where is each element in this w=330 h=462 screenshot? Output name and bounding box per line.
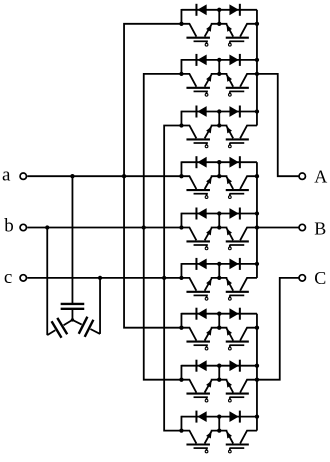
- diode D4a: [197, 157, 206, 168]
- diode D5a: [197, 208, 206, 219]
- transistor Q8a gate plate: [194, 396, 208, 398]
- diode D7a: [197, 308, 206, 319]
- transistor Q7b emitter arrow: [226, 329, 232, 336]
- node line c to filter: [98, 276, 102, 280]
- transistor Q2b bar: [226, 87, 249, 89]
- transistor Q5b collector lead: [240, 228, 257, 241]
- diode D3a: [197, 106, 206, 117]
- terminal C: [299, 275, 305, 281]
- transistor Q3b gate lead: [229, 143, 231, 145]
- node emitter centre of cell S7: [217, 326, 221, 330]
- transistor Q9a gate lead: [206, 448, 208, 450]
- transistor Q9a gate terminal: [205, 450, 208, 453]
- node emitter centre of cell S8: [217, 378, 221, 382]
- transistor Q6a gate plate: [194, 294, 208, 296]
- wire top rail of cell S7: [181, 313, 257, 315]
- diode D9a cathode bar: [195, 411, 197, 423]
- transistor Q2b gate plate: [229, 90, 244, 92]
- terminal a: [20, 173, 26, 179]
- transistor Q9b bar: [226, 443, 249, 445]
- transistor Q8b collector lead: [240, 380, 257, 393]
- svg-text:A: A: [314, 166, 327, 186]
- diode D7b cathode bar: [239, 308, 241, 320]
- transistor Q3b collector lead: [240, 126, 257, 139]
- wire star point to capacitor C3: [72, 320, 81, 325]
- node right terminal of cell S8: [255, 378, 259, 382]
- transistor Q2b gate terminal: [228, 93, 231, 96]
- transistor Q2a emitter arrow: [206, 75, 212, 82]
- transistor Q3b emitter arrow: [226, 126, 232, 133]
- transistor Q6b emitter lead: [219, 278, 233, 291]
- node top-centre of cell S3: [217, 109, 221, 113]
- wire left rail of cell S7: [180, 313, 182, 328]
- diode D3b cathode bar: [239, 106, 241, 118]
- wire left rail of cell S6: [180, 263, 182, 278]
- node bus a at line a: [122, 174, 126, 178]
- wire left rail of cell S8: [180, 365, 182, 380]
- wire centre link of cell S2: [218, 60, 220, 74]
- wire output bus phase A (cells S1-S3): [256, 10, 258, 126]
- node left terminal of cell S8: [179, 378, 183, 382]
- wire left rail of cell S3: [180, 111, 182, 126]
- node left terminal of cell S4: [179, 174, 183, 178]
- diode D3a cathode bar: [195, 106, 197, 118]
- diode D1b cathode bar: [239, 4, 241, 16]
- wire top rail of cell S4: [181, 161, 257, 163]
- transistor Q8a collector lead: [181, 380, 196, 393]
- wire top rail of cell S2: [181, 59, 257, 61]
- node top-centre of cell S9: [217, 414, 221, 418]
- transistor Q8a bar: [186, 393, 210, 395]
- node left terminal of cell S9: [179, 428, 183, 432]
- transistor Q1b collector lead: [240, 24, 257, 37]
- transistor Q8b gate plate: [229, 396, 244, 398]
- transistor Q5b gate lead: [229, 245, 231, 247]
- transistor Q6a bar: [186, 291, 210, 293]
- wire centre link of cell S3: [218, 112, 220, 126]
- transistor Q8b bar: [226, 393, 249, 395]
- wire capacitor C3 outer lead: [90, 329, 100, 334]
- wire centre link of cell S9: [218, 417, 220, 431]
- transistor Q9a collector lead: [181, 431, 196, 444]
- transistor Q6b gate lead: [229, 295, 231, 297]
- transistor Q1b emitter arrow: [226, 25, 232, 32]
- diode D9b: [229, 411, 238, 422]
- transistor Q7b gate lead: [229, 345, 231, 347]
- diode D6b: [229, 259, 238, 270]
- wire input bus c to cells S3 and S9: [164, 126, 181, 431]
- wire line c: [27, 277, 181, 279]
- transistor Q6b collector lead: [240, 278, 257, 291]
- transistor Q6b emitter arrow: [226, 279, 232, 286]
- capacitor C1 top plate: [61, 303, 85, 305]
- node right terminal of cell S7: [255, 326, 259, 330]
- node left terminal of cell S5: [179, 225, 183, 229]
- diode D1a: [197, 4, 206, 15]
- svg-text:C: C: [314, 268, 326, 288]
- wire output bus phase B (cells S4-S6): [256, 162, 258, 278]
- node bus B at S6 top rail: [255, 262, 259, 266]
- diode D2b cathode bar: [239, 54, 241, 66]
- transistor Q1a bar: [186, 37, 210, 39]
- transistor Q9a bar: [186, 443, 210, 445]
- transistor Q2a collector lead: [181, 74, 196, 87]
- transistor Q5a gate plate: [194, 244, 208, 246]
- transistor Q9a emitter lead: [205, 431, 220, 444]
- node bus A at S2 top rail: [255, 58, 259, 62]
- wire top rail of cell S1: [181, 9, 257, 11]
- transistor Q6a emitter arrow: [206, 279, 212, 286]
- transistor Q7a emitter lead: [205, 328, 220, 341]
- transistor Q6a collector lead: [181, 278, 196, 291]
- transistor Q9b emitter arrow: [226, 432, 232, 439]
- transistor Q3b bar: [226, 138, 249, 140]
- transistor Q7b gate terminal: [228, 347, 231, 350]
- wire filter branch from a: [71, 176, 73, 303]
- diode D9b cathode bar: [239, 411, 241, 423]
- transistor Q3a emitter arrow: [206, 126, 212, 133]
- transistor Q2b emitter lead: [219, 74, 233, 87]
- diode D2b: [229, 55, 238, 66]
- node emitter centre of cell S5: [217, 225, 221, 229]
- transistor Q3b emitter lead: [219, 126, 233, 139]
- transistor Q6a gate lead: [206, 295, 208, 297]
- node emitter centre of cell S2: [217, 72, 221, 76]
- transistor Q8a gate terminal: [205, 399, 208, 402]
- wire centre link of cell S1: [218, 10, 220, 24]
- wire line b: [27, 227, 181, 229]
- wire centre link of cell S7: [218, 314, 220, 328]
- transistor Q1b bar: [226, 37, 249, 39]
- transistor Q8a gate lead: [206, 397, 208, 399]
- transistor Q2a gate lead: [206, 91, 208, 93]
- transistor Q3a gate terminal: [205, 145, 208, 148]
- wire filter branch from c: [99, 278, 101, 334]
- wire filter branch from b: [46, 228, 48, 336]
- node left terminal of cell S1: [179, 22, 183, 26]
- wire left rail of cell S4: [180, 161, 182, 176]
- capacitor C2 plate 2: [52, 321, 62, 337]
- transistor Q6b gate plate: [229, 294, 244, 296]
- transistor Q4b gate plate: [229, 193, 244, 195]
- transistor Q5a bar: [186, 240, 210, 242]
- node bus C at S8 top rail: [255, 364, 259, 368]
- diode D2a: [197, 55, 206, 66]
- node bus b at line b: [142, 225, 146, 229]
- transistor Q4a collector lead: [181, 176, 196, 189]
- transistor Q8b emitter arrow: [226, 381, 232, 388]
- terminal B: [299, 224, 305, 230]
- transistor Q6a gate terminal: [205, 297, 208, 300]
- wire line a: [27, 175, 181, 177]
- transistor Q7b emitter lead: [219, 328, 233, 341]
- transistor Q4b collector lead: [240, 176, 257, 189]
- transistor Q2a gate plate: [194, 90, 208, 92]
- transistor Q8a emitter lead: [205, 380, 220, 393]
- transistor Q2a emitter lead: [205, 74, 220, 87]
- transistor Q4b bar: [226, 189, 249, 191]
- transistor Q4b gate lead: [229, 194, 231, 196]
- diode D8b: [229, 360, 238, 371]
- transistor Q8b emitter lead: [219, 380, 233, 393]
- transistor Q7b collector lead: [240, 328, 257, 341]
- transistor Q7a gate lead: [206, 345, 208, 347]
- wire output bus phase C (cells S7-S9): [256, 314, 258, 431]
- node bus A at S3 top rail: [255, 109, 259, 113]
- capacitor C1 bottom plate: [61, 308, 85, 310]
- terminal A: [299, 173, 305, 179]
- node top-centre of cell S5: [217, 211, 221, 215]
- node right terminal of cell S4: [255, 174, 259, 178]
- transistor Q1a gate lead: [206, 41, 208, 43]
- transistor Q7a gate plate: [194, 344, 208, 346]
- node top-centre of cell S4: [217, 160, 221, 164]
- diode D2a cathode bar: [195, 54, 197, 66]
- transistor Q3a bar: [186, 138, 210, 140]
- wire input bus b to cells S2 and S8: [144, 74, 182, 380]
- capacitor C3 plate 2: [85, 320, 94, 337]
- transistor Q3a gate plate: [194, 142, 208, 144]
- wire input bus a to cells S1 and S7: [124, 24, 181, 328]
- diode D1a cathode bar: [195, 4, 197, 16]
- transistor Q9a emitter arrow: [206, 432, 212, 439]
- node left terminal of cell S6: [179, 276, 183, 280]
- diode D8a cathode bar: [195, 360, 197, 372]
- node left terminal of cell S7: [179, 326, 183, 330]
- node filter star point: [71, 318, 74, 321]
- wire capacitor C1 to star point: [71, 310, 73, 320]
- diode D6a: [197, 259, 206, 270]
- transistor Q2a bar: [186, 87, 210, 89]
- capacitor C2 plate 1: [57, 318, 67, 334]
- transistor Q8b gate terminal: [228, 399, 231, 402]
- transistor Q1a gate terminal: [205, 43, 208, 46]
- node left terminal of cell S3: [179, 123, 183, 127]
- wire top rail of cell S6: [181, 263, 257, 265]
- transistor Q3a collector lead: [181, 126, 196, 139]
- diode D7b: [229, 308, 238, 319]
- node right terminal of cell S2: [255, 72, 259, 76]
- transistor Q4a gate terminal: [205, 196, 208, 199]
- wire centre link of cell S4: [218, 162, 220, 176]
- wire capacitor C2 outer lead: [47, 330, 55, 335]
- transistor Q4a gate plate: [194, 193, 208, 195]
- transistor Q8a emitter arrow: [206, 381, 212, 388]
- transistor Q3a gate lead: [206, 143, 208, 145]
- node line a to filter: [70, 174, 74, 178]
- transistor Q1a emitter lead: [205, 24, 220, 37]
- transistor Q4a gate lead: [206, 194, 208, 196]
- wire centre link of cell S6: [218, 264, 220, 278]
- node emitter centre of cell S1: [217, 22, 221, 26]
- node top-centre of cell S1: [217, 8, 221, 12]
- wire output B: [257, 227, 299, 229]
- transistor Q5a gate lead: [206, 245, 208, 247]
- transistor Q5b gate terminal: [228, 247, 231, 250]
- transistor Q5b emitter lead: [219, 228, 233, 241]
- wire left rail of cell S1: [180, 9, 182, 24]
- node emitter centre of cell S3: [217, 123, 221, 127]
- diode D4a cathode bar: [195, 156, 197, 168]
- transistor Q3a emitter lead: [205, 126, 220, 139]
- transistor Q8b gate lead: [229, 397, 231, 399]
- transistor Q9b gate terminal: [228, 450, 231, 453]
- diode D1b: [229, 4, 238, 15]
- capacitor C3 plate 1: [79, 317, 88, 334]
- diode D5a cathode bar: [195, 208, 197, 220]
- svg-text:b: b: [4, 215, 14, 236]
- transistor Q9b gate plate: [229, 447, 244, 449]
- transistor Q7a emitter arrow: [206, 329, 212, 336]
- transistor Q7b gate plate: [229, 344, 244, 346]
- node top-centre of cell S8: [217, 364, 221, 368]
- transistor Q1b gate terminal: [228, 43, 231, 46]
- wire top rail of cell S5: [181, 213, 257, 215]
- node right terminal of cell S5: [255, 225, 259, 229]
- transistor Q5a gate terminal: [205, 247, 208, 250]
- node emitter centre of cell S4: [217, 174, 221, 178]
- transistor Q5b emitter arrow: [226, 228, 232, 235]
- transistor Q2b emitter arrow: [226, 75, 232, 82]
- wire centre link of cell S5: [218, 214, 220, 228]
- node bus C at S9 top rail: [255, 414, 259, 418]
- transistor Q7a gate terminal: [205, 347, 208, 350]
- node top-centre of cell S7: [217, 312, 221, 316]
- node emitter centre of cell S9: [217, 428, 221, 432]
- diode D9a: [197, 411, 206, 422]
- transistor Q1b gate lead: [229, 41, 231, 43]
- transistor Q4a emitter arrow: [206, 177, 212, 184]
- transistor Q7b bar: [226, 341, 249, 343]
- transistor Q7a collector lead: [181, 328, 196, 341]
- wire left rail of cell S9: [180, 416, 182, 431]
- node right terminal of cell S1: [255, 22, 259, 26]
- svg-text:B: B: [314, 218, 326, 238]
- node bus B at S5 top rail: [255, 211, 259, 215]
- transistor Q4b emitter arrow: [226, 177, 232, 184]
- transistor Q4b gate terminal: [228, 196, 231, 199]
- transistor Q1b gate plate: [229, 40, 244, 42]
- transistor Q2b gate lead: [229, 91, 231, 93]
- wire left rail of cell S5: [180, 213, 182, 228]
- transistor Q9b emitter lead: [219, 431, 233, 444]
- diode D8b cathode bar: [239, 360, 241, 372]
- node left terminal of cell S2: [179, 72, 183, 76]
- transistor Q4a emitter lead: [205, 176, 220, 189]
- transistor Q2b collector lead: [240, 74, 257, 87]
- transistor Q5a emitter arrow: [206, 228, 212, 235]
- transistor Q5b gate plate: [229, 244, 244, 246]
- diode D4b: [229, 157, 238, 168]
- svg-text:a: a: [2, 165, 11, 186]
- node top-centre of cell S2: [217, 58, 221, 62]
- wire output A: [257, 74, 299, 176]
- transistor Q4a bar: [186, 189, 210, 191]
- wire top rail of cell S8: [181, 365, 257, 367]
- diode D4b cathode bar: [239, 156, 241, 168]
- transistor Q3b gate plate: [229, 142, 244, 144]
- transistor Q9b collector lead: [240, 431, 257, 444]
- transistor Q7a bar: [186, 341, 210, 343]
- diode D7a cathode bar: [195, 308, 197, 320]
- node line b to filter: [45, 225, 49, 229]
- terminal c: [20, 275, 26, 281]
- transistor Q3b gate terminal: [228, 145, 231, 148]
- transistor Q6b bar: [226, 291, 249, 293]
- diode D6b cathode bar: [239, 258, 241, 270]
- transistor Q2a gate terminal: [205, 93, 208, 96]
- transistor Q9b gate lead: [229, 448, 231, 450]
- transistor Q6a emitter lead: [205, 278, 220, 291]
- wire left rail of cell S2: [180, 59, 182, 74]
- transistor Q9a gate plate: [194, 447, 208, 449]
- wire top rail of cell S3: [181, 111, 257, 113]
- transistor Q1a emitter arrow: [206, 25, 212, 32]
- transistor Q1a collector lead: [181, 24, 196, 37]
- transistor Q5a collector lead: [181, 228, 196, 241]
- node top-centre of cell S6: [217, 262, 221, 266]
- wire centre link of cell S8: [218, 366, 220, 380]
- transistor Q5a emitter lead: [205, 228, 220, 241]
- transistor Q1a gate plate: [194, 40, 208, 42]
- transistor Q5b bar: [226, 240, 249, 242]
- wire top rail of cell S9: [181, 416, 257, 418]
- diode D6a cathode bar: [195, 258, 197, 270]
- wire star point to capacitor C2: [64, 320, 73, 325]
- diode D3b: [229, 106, 238, 117]
- node bus c at line c: [162, 276, 166, 280]
- diode D8a: [197, 360, 206, 371]
- svg-text:c: c: [4, 267, 12, 288]
- transistor Q4b emitter lead: [219, 176, 233, 189]
- node emitter centre of cell S6: [217, 276, 221, 280]
- transistor Q1b emitter lead: [219, 24, 233, 37]
- terminal b: [20, 224, 26, 230]
- diode D5b: [229, 208, 238, 219]
- transistor Q6b gate terminal: [228, 297, 231, 300]
- wire output C: [257, 278, 299, 380]
- diode D5b cathode bar: [239, 208, 241, 220]
